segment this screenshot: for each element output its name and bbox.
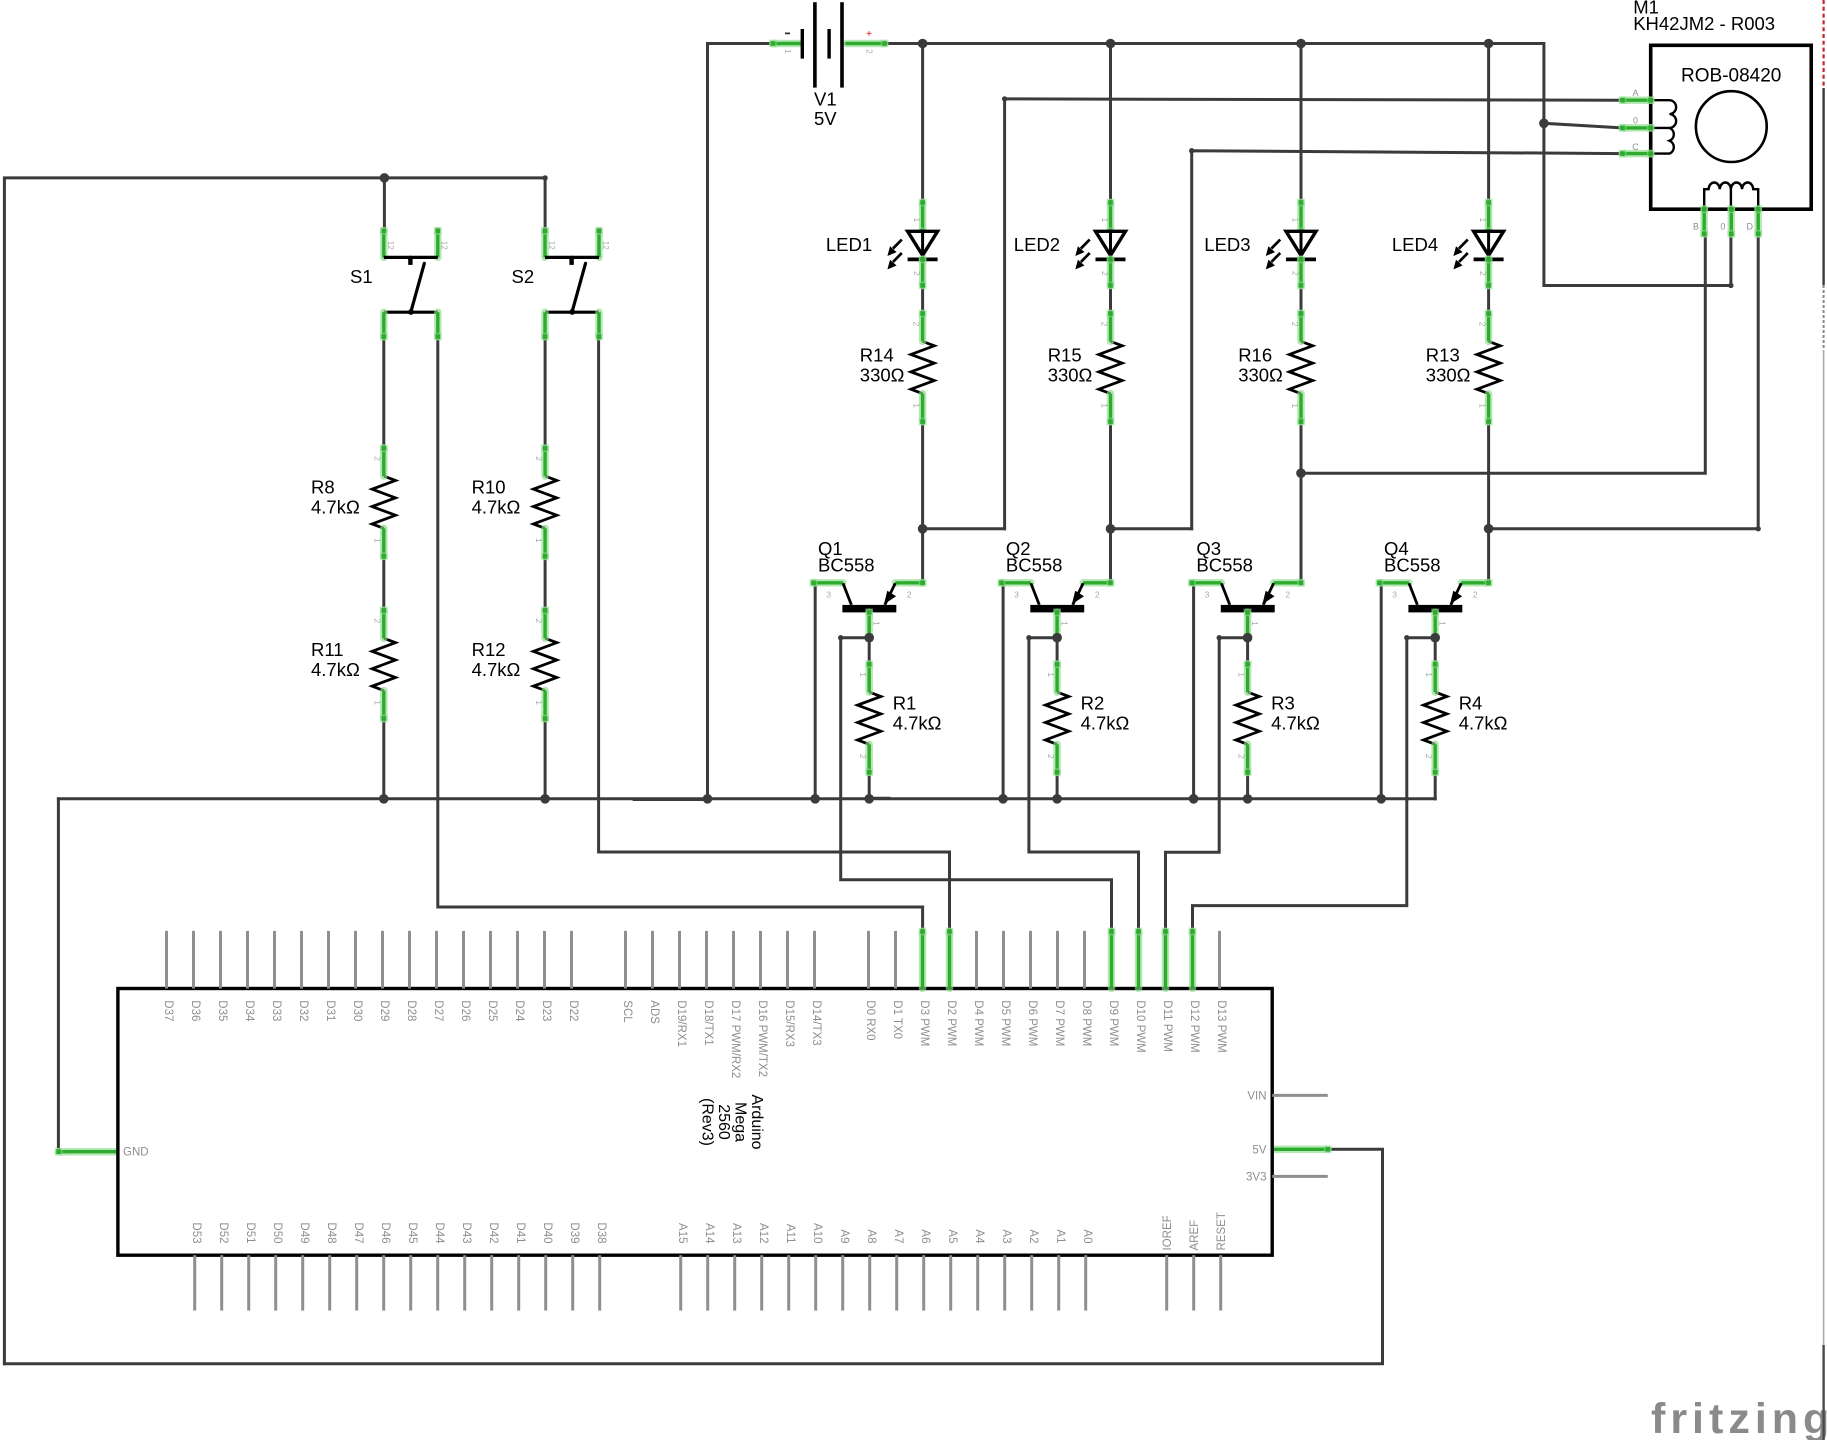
svg-text:R16: R16 [1238, 344, 1272, 365]
wire Q3 pin3 to bus rail [1192, 583, 1195, 799]
svg-text:3: 3 [1392, 590, 1397, 600]
svg-text:V1: V1 [814, 89, 837, 110]
svg-text:12: 12 [601, 241, 610, 250]
svg-text:2: 2 [1290, 271, 1300, 276]
svg-text:2: 2 [1478, 271, 1488, 276]
wire 5V rail to LED4 anode [1487, 44, 1490, 203]
svg-text:1: 1 [858, 672, 868, 677]
svg-text:2: 2 [1099, 322, 1109, 327]
svg-text:Mega: Mega [731, 1102, 748, 1142]
svg-text:2: 2 [1424, 754, 1434, 759]
svg-text:R2: R2 [1081, 693, 1105, 714]
green lead Arduino GND pin wire [55, 1148, 118, 1156]
svg-text:S1: S1 [350, 266, 373, 287]
svg-text:IOREF: IOREF [1162, 1215, 1174, 1250]
svg-text:5V: 5V [814, 108, 837, 129]
svg-text:D7 PWM: D7 PWM [1053, 1000, 1065, 1046]
svg-text:D5 PWM: D5 PWM [999, 1000, 1011, 1046]
svg-text:+: + [866, 29, 872, 40]
svg-text:D37: D37 [162, 1000, 174, 1021]
svg-text:D15/RX3: D15/RX3 [783, 1000, 795, 1047]
wire Q3 base to Arduino D11 [1166, 635, 1248, 931]
Arduino bottom pin labels [190, 1212, 1228, 1250]
svg-text:LED1: LED1 [826, 234, 872, 255]
svg-text:330Ω: 330Ω [1048, 364, 1093, 385]
wire Q4 base to Arduino D12 [1193, 635, 1436, 931]
wire R16 to Q3 collector node [1300, 421, 1303, 583]
svg-text:4.7kΩ: 4.7kΩ [472, 497, 521, 518]
svg-text:D40: D40 [541, 1222, 553, 1243]
svg-text:3: 3 [1014, 590, 1019, 600]
svg-text:1: 1 [534, 538, 544, 543]
svg-text:D41: D41 [514, 1222, 526, 1243]
switch S2 [512, 227, 610, 341]
wire battery V1 negative lead to bus rail [708, 44, 775, 799]
svg-text:A12: A12 [757, 1223, 769, 1243]
svg-text:D47: D47 [352, 1222, 364, 1243]
svg-text:1: 1 [1290, 218, 1300, 223]
svg-text:R12: R12 [472, 639, 506, 660]
svg-text:A2: A2 [1027, 1229, 1039, 1243]
Arduino top pin row [167, 928, 1220, 989]
wire battery V1 positive rail to motor pin 0 (bottom) [846, 44, 1734, 289]
svg-text:2: 2 [534, 619, 544, 624]
wire bus rail to Arduino GND [58, 799, 64, 1152]
svg-text:D14/TX3: D14/TX3 [810, 1000, 822, 1045]
svg-text:1: 1 [783, 49, 793, 54]
svg-text:4.7kΩ: 4.7kΩ [1271, 713, 1320, 734]
svg-text:A3: A3 [1000, 1229, 1012, 1243]
wire R11 to bus rail [382, 718, 385, 799]
svg-text:2: 2 [373, 456, 383, 461]
battery V1 5V [769, 2, 889, 129]
svg-text:1: 1 [1250, 621, 1260, 626]
svg-text:1: 1 [1478, 218, 1488, 223]
svg-text:AREF: AREF [1189, 1220, 1201, 1251]
svg-text:1: 1 [1477, 403, 1487, 408]
wire Q2 pin3 to bus rail [1002, 583, 1005, 799]
wire R10 to R12 [544, 556, 547, 611]
svg-text:D46: D46 [379, 1222, 391, 1243]
svg-text:D: D [1747, 222, 1754, 232]
resistor R16 330 [1238, 310, 1313, 426]
wire Q3 collector to motor pin B [1301, 234, 1705, 473]
wire R13 to Q4 collector node [1487, 421, 1490, 583]
svg-text:D0 RX0: D0 RX0 [864, 1000, 876, 1040]
svg-text:D38: D38 [595, 1222, 607, 1243]
svg-text:4.7kΩ: 4.7kΩ [311, 659, 360, 680]
svg-text:ROB-08420: ROB-08420 [1681, 66, 1781, 87]
svg-text:12: 12 [547, 241, 556, 250]
wire S1 to Arduino D3 [438, 337, 923, 932]
svg-text:1: 1 [1046, 672, 1056, 677]
svg-text:D22: D22 [567, 1000, 579, 1021]
switch S1 [350, 227, 449, 341]
LED LED1 [826, 199, 938, 290]
LED LED3 [1204, 199, 1316, 290]
svg-text:R11: R11 [311, 639, 344, 660]
wire 5V rail to LED2 anode [1109, 44, 1112, 203]
svg-text:D3 PWM: D3 PWM [918, 1000, 930, 1046]
svg-text:D43: D43 [460, 1222, 472, 1243]
svg-text:fritzing: fritzing [1651, 1395, 1827, 1440]
wire R3 to bus rail [1246, 772, 1249, 799]
svg-text:A5: A5 [946, 1229, 958, 1243]
wire Q2 collector to motor pin C [1111, 148, 1625, 529]
svg-text:4.7kΩ: 4.7kΩ [311, 497, 360, 518]
LED LED2 [1014, 199, 1126, 290]
wire junction to S1 top [383, 178, 386, 232]
resistor R10 4.7k [472, 444, 557, 560]
Arduino Mega 2560 body [118, 989, 1272, 1256]
svg-text:R10: R10 [472, 477, 506, 498]
wire Q2 base to R2 [1056, 638, 1059, 665]
svg-text:LED4: LED4 [1392, 234, 1438, 255]
transistor Q3 BC558 [1188, 538, 1305, 642]
svg-text:0: 0 [1720, 222, 1725, 232]
svg-text:D32: D32 [297, 1000, 309, 1021]
wire 5V rail to LED3 anode [1300, 44, 1303, 203]
svg-text:12: 12 [440, 241, 449, 250]
svg-text:1: 1 [912, 218, 922, 223]
svg-text:D50: D50 [271, 1222, 283, 1243]
svg-text:D10 PWM: D10 PWM [1134, 1000, 1146, 1052]
svg-text:D53: D53 [190, 1222, 202, 1243]
svg-text:1: 1 [1059, 621, 1069, 626]
svg-text:2: 2 [858, 754, 868, 759]
wire R4 to bus rail [1434, 772, 1437, 799]
svg-text:1: 1 [1100, 218, 1110, 223]
svg-text:A0: A0 [1081, 1229, 1093, 1243]
wire Arduino 5V to bottom loop [4, 1149, 1382, 1364]
svg-text:C: C [1632, 142, 1639, 152]
wire Q4 pin3 to bus rail [1380, 583, 1383, 799]
svg-text:Arduino: Arduino [748, 1094, 765, 1149]
resistor R4 4.7k [1424, 660, 1508, 776]
svg-text:2: 2 [1095, 590, 1100, 600]
svg-text:4.7kΩ: 4.7kΩ [472, 659, 521, 680]
bus rail (battery negative node) [58, 798, 1435, 800]
svg-text:1: 1 [911, 403, 921, 408]
resistor R12 4.7k [472, 607, 557, 723]
svg-text:D45: D45 [406, 1222, 418, 1243]
svg-text:D17 PWM/RX2: D17 PWM/RX2 [729, 1000, 741, 1078]
svg-text:D26: D26 [459, 1000, 471, 1021]
svg-text:D39: D39 [568, 1222, 580, 1243]
svg-text:LED3: LED3 [1204, 234, 1250, 255]
svg-text:D9 PWM: D9 PWM [1107, 1000, 1119, 1046]
svg-text:0: 0 [1633, 116, 1638, 126]
wire 5V loop to switches S1 S2 [4, 175, 547, 1364]
svg-text:R15: R15 [1048, 344, 1082, 365]
transistor Q1 BC558 [810, 538, 927, 642]
svg-text:1: 1 [1236, 672, 1246, 677]
svg-text:D33: D33 [270, 1000, 282, 1021]
wire R15 to Q2 collector node [1109, 421, 1112, 583]
svg-text:D19/RX1: D19/RX1 [675, 1000, 687, 1047]
svg-text:SCL: SCL [621, 1000, 633, 1023]
svg-text:R8: R8 [311, 477, 335, 498]
svg-text:BC558: BC558 [818, 555, 875, 576]
wire LED2 cathode to resistor [1109, 285, 1112, 313]
fritzing watermark [1651, 1395, 1827, 1440]
svg-text:R1: R1 [893, 693, 917, 714]
wire Q3 base to R3 [1246, 638, 1249, 665]
svg-text:330Ω: 330Ω [860, 364, 905, 385]
svg-text:4.7kΩ: 4.7kΩ [1081, 713, 1130, 734]
svg-text:A9: A9 [838, 1229, 850, 1243]
wire Q4 collector to motor pin D [1489, 234, 1761, 531]
svg-text:5V: 5V [1252, 1144, 1266, 1156]
svg-text:2: 2 [911, 322, 921, 327]
svg-text:2: 2 [1477, 322, 1487, 327]
svg-text:D27: D27 [432, 1000, 444, 1021]
green lead Arduino 5V pin wire [1272, 1145, 1332, 1153]
svg-text:D51: D51 [244, 1222, 256, 1243]
svg-text:3: 3 [1205, 590, 1210, 600]
resistor R8 4.7k [311, 444, 396, 560]
svg-text:A4: A4 [973, 1229, 985, 1244]
resistor R11 4.7k [311, 607, 396, 723]
svg-text:BC558: BC558 [1196, 555, 1253, 576]
svg-text:D16 PWM/TX2: D16 PWM/TX2 [756, 1000, 768, 1077]
svg-text:D42: D42 [487, 1222, 499, 1243]
svg-text:VIN: VIN [1247, 1090, 1266, 1102]
svg-text:D35: D35 [216, 1000, 228, 1021]
svg-text:ADS: ADS [648, 1000, 660, 1024]
Arduino top pin labels [162, 1000, 1227, 1078]
svg-text:1: 1 [373, 700, 383, 705]
svg-text:2: 2 [534, 456, 544, 461]
svg-text:2: 2 [907, 590, 912, 600]
svg-text:(Rev3): (Rev3) [698, 1098, 715, 1146]
svg-text:D52: D52 [217, 1222, 229, 1243]
svg-text:D31: D31 [324, 1000, 336, 1021]
svg-text:4.7kΩ: 4.7kΩ [893, 713, 942, 734]
svg-text:R13: R13 [1426, 344, 1460, 365]
svg-text:A15: A15 [676, 1223, 688, 1243]
wire 5V rail to LED1 anode [921, 44, 924, 203]
svg-text:2: 2 [1100, 271, 1110, 276]
transistor Q2 BC558 [998, 538, 1115, 642]
wire LED1 cathode to resistor [921, 285, 924, 313]
wire S2 to R10 [544, 337, 547, 449]
svg-text:2: 2 [865, 49, 875, 54]
svg-text:D48: D48 [325, 1222, 337, 1243]
wire Q1 pin3 to bus rail [814, 583, 817, 799]
svg-text:GND: GND [123, 1147, 149, 1159]
svg-text:LED2: LED2 [1014, 234, 1060, 255]
wire S1 to R8 [382, 337, 385, 449]
Arduino bottom pin row [195, 1255, 1221, 1310]
svg-text:D8 PWM: D8 PWM [1080, 1000, 1092, 1046]
svg-text:2: 2 [1236, 754, 1246, 759]
wire Q2 base to Arduino D10 [1026, 635, 1138, 931]
wire LED3 cathode to resistor [1300, 285, 1303, 313]
svg-text:D1 TX0: D1 TX0 [891, 1000, 903, 1039]
svg-text:D34: D34 [243, 1000, 255, 1022]
svg-text:D18/TX1: D18/TX1 [702, 1000, 714, 1045]
svg-text:A10: A10 [811, 1223, 823, 1243]
svg-text:330Ω: 330Ω [1426, 364, 1471, 385]
svg-text:D30: D30 [351, 1000, 363, 1021]
wire R2 to bus rail [1056, 772, 1059, 799]
svg-text:2560: 2560 [715, 1104, 732, 1140]
wire motor M1 pin 0 (left) tap [1544, 123, 1625, 130]
svg-text:1: 1 [1099, 403, 1109, 408]
svg-text:2: 2 [1473, 590, 1478, 600]
resistor R14 330 [860, 310, 935, 426]
svg-text:12: 12 [386, 241, 395, 250]
stepper motor M1 KH42JM2-R003 ROB-08420 [1619, 0, 1812, 238]
wire R12 to bus rail [544, 718, 547, 799]
Arduino side pins VIN 5V 3V3 GND [123, 1090, 1328, 1183]
svg-text:D36: D36 [189, 1000, 201, 1021]
svg-text:D24: D24 [513, 1000, 525, 1022]
wire R14 to Q1 collector node [921, 421, 924, 583]
svg-text:A8: A8 [865, 1229, 877, 1243]
Arduino Mega 2560 (Rev3) label [698, 1094, 765, 1149]
svg-text:330Ω: 330Ω [1238, 364, 1283, 385]
svg-text:R14: R14 [860, 344, 894, 365]
svg-text:A7: A7 [892, 1229, 904, 1243]
svg-text:B: B [1693, 222, 1699, 232]
svg-text:BC558: BC558 [1384, 555, 1441, 576]
wire LED4 cathode to resistor [1487, 285, 1490, 313]
resistor R2 4.7k [1045, 660, 1129, 776]
resistor R13 330 [1426, 310, 1501, 426]
svg-text:D12 PWM: D12 PWM [1188, 1000, 1200, 1052]
wire Q1 base to Arduino D9 [838, 635, 1111, 931]
svg-text:2: 2 [373, 619, 383, 624]
svg-text:A6: A6 [919, 1229, 931, 1243]
svg-text:RESET: RESET [1216, 1212, 1228, 1250]
svg-text:A14: A14 [703, 1223, 715, 1244]
wire R8 to R11 [382, 556, 385, 611]
svg-text:S2: S2 [512, 266, 535, 287]
wire Q1 collector to motor pin A [923, 96, 1625, 529]
svg-text:D6 PWM: D6 PWM [1026, 1000, 1038, 1046]
LED LED4 [1392, 199, 1504, 290]
svg-text:4.7kΩ: 4.7kΩ [1459, 713, 1508, 734]
svg-text:A: A [1632, 88, 1638, 98]
svg-text:2: 2 [1046, 754, 1056, 759]
svg-text:D28: D28 [405, 1000, 417, 1021]
wire R1 to bus rail [868, 772, 871, 799]
svg-text:D44: D44 [433, 1222, 445, 1244]
svg-text:BC558: BC558 [1006, 555, 1063, 576]
svg-text:D29: D29 [378, 1000, 390, 1021]
svg-text:1: 1 [534, 700, 544, 705]
svg-text:R4: R4 [1459, 693, 1483, 714]
svg-text:D25: D25 [486, 1000, 498, 1021]
svg-text:A13: A13 [730, 1223, 742, 1243]
svg-text:A1: A1 [1054, 1229, 1066, 1243]
svg-text:3: 3 [826, 590, 831, 600]
svg-text:1: 1 [373, 538, 383, 543]
svg-text:A11: A11 [784, 1224, 796, 1244]
svg-text:D11 PWM: D11 PWM [1161, 1000, 1173, 1052]
svg-text:1: 1 [1437, 621, 1447, 626]
transistor Q4 BC558 [1376, 538, 1493, 642]
svg-text:2: 2 [912, 271, 922, 276]
wire Q4 base to R4 [1434, 638, 1437, 665]
svg-text:1: 1 [871, 621, 881, 626]
svg-text:D49: D49 [298, 1222, 310, 1243]
resistor R1 4.7k [858, 660, 942, 776]
canvas edge artifact [1822, 0, 1824, 1440]
svg-text:R3: R3 [1271, 693, 1295, 714]
resistor R15 330 [1048, 310, 1123, 426]
wire S2 top drop [544, 178, 547, 232]
svg-text:1: 1 [1290, 403, 1300, 408]
svg-text:D23: D23 [540, 1000, 552, 1021]
svg-text:KH42JM2 - R003: KH42JM2 - R003 [1633, 13, 1775, 34]
svg-text:2: 2 [1285, 590, 1290, 600]
wire S2 to Arduino D2 [599, 337, 950, 932]
wire Q1 base to R1 [868, 638, 871, 665]
resistor R3 4.7k [1236, 660, 1320, 776]
svg-text:D2 PWM: D2 PWM [945, 1000, 957, 1046]
svg-text:D4 PWM: D4 PWM [972, 1000, 984, 1046]
svg-text:3V3: 3V3 [1246, 1171, 1266, 1183]
svg-text:D13 PWM: D13 PWM [1215, 1000, 1227, 1052]
svg-text:2: 2 [1290, 322, 1300, 327]
svg-text:1: 1 [1424, 672, 1434, 677]
